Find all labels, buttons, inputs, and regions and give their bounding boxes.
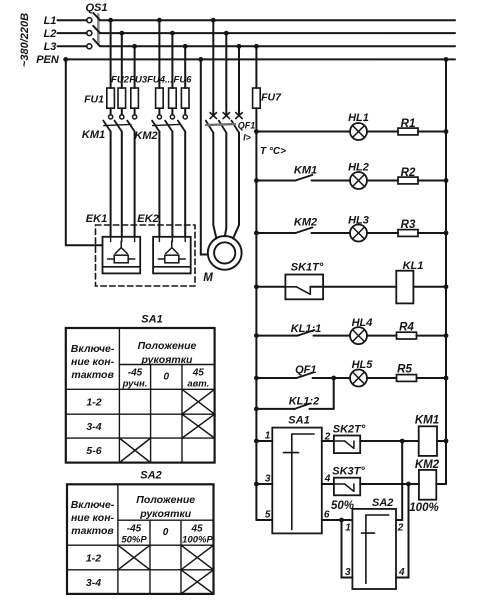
fuse FU6 (181, 88, 189, 108)
svg-text:SK1T°: SK1T° (291, 262, 324, 274)
svg-text:KM1: KM1 (415, 415, 439, 427)
svg-text:KL1:2: KL1:2 (289, 396, 320, 408)
svg-text:HL1: HL1 (348, 112, 369, 124)
fuse FU5 (169, 88, 177, 108)
wire SA2 pin4 riser (396, 484, 409, 578)
svg-text:тактов: тактов (71, 369, 114, 381)
svg-text:KM1: KM1 (294, 165, 317, 177)
contact KL1:1 (298, 330, 315, 336)
svg-text:KM2: KM2 (294, 217, 317, 229)
wire row4 bus to SK1T (256, 286, 285, 288)
wire HL2 to R2 (367, 180, 398, 182)
wire feeder to fuse FU5 (171, 33, 173, 88)
SK3T contact (334, 483, 345, 485)
wire fuse FU2 to KM1 contact (121, 108, 123, 115)
SA1 pin1 wire (256, 440, 272, 442)
wire KM2 contact down (184, 132, 186, 237)
wire QF1 aux to HL5 (313, 377, 351, 379)
SA1 pin6 wire (322, 519, 342, 521)
fuse FU2 (118, 88, 126, 108)
svg-text:45: 45 (190, 524, 203, 535)
svg-text:1-2: 1-2 (86, 553, 101, 565)
wire SK1T to KL1 (310, 286, 396, 288)
wire feeder to fuse FU4 (158, 20, 160, 88)
svg-text:2: 2 (397, 523, 404, 534)
wire HL1 to R1 (367, 131, 398, 133)
svg-text:T °C>: T °C> (260, 146, 286, 157)
wire L2 lead (58, 32, 87, 34)
svg-text:тактов: тактов (71, 525, 114, 537)
SA1 pin2 wire (322, 440, 334, 442)
svg-text:KL1: KL1 (403, 260, 424, 272)
svg-text:QF1: QF1 (295, 364, 316, 376)
svg-text:I>: I> (243, 133, 252, 143)
svg-text:SK3T°: SK3T° (332, 466, 365, 478)
wire SK3T to KM2 coil (360, 483, 419, 485)
thermal switch SK1T box (285, 275, 323, 300)
wire left control bus (255, 108, 257, 520)
svg-text:авт.: авт. (187, 379, 209, 390)
wire feeder to fuse FU3 (134, 46, 136, 88)
svg-text:KM2: KM2 (415, 459, 440, 471)
wire R5 to right bus (417, 377, 447, 379)
svg-text:100%: 100% (409, 502, 438, 514)
wire KL1 to right bus (413, 286, 446, 288)
lamp HL3 (350, 225, 367, 242)
wire KM1 contact down (134, 132, 136, 237)
motor M outer circle (208, 236, 242, 270)
svg-text:рукоятки: рукоятки (139, 508, 192, 520)
svg-text:KL1:1: KL1:1 (291, 323, 322, 335)
fuse FU3 (131, 88, 139, 108)
wire SA2 pin2 riser (396, 441, 402, 520)
wire row1 bus to HL1 (256, 131, 350, 133)
svg-text:L1: L1 (44, 15, 57, 27)
thermal switch SK2T box (334, 436, 360, 454)
svg-text:SA1: SA1 (288, 415, 309, 427)
wire SA2 pin3 riser (342, 520, 353, 578)
wire fuse FU4 to KM2 contact (158, 108, 160, 115)
wire QF1 pole3 to motor (233, 133, 239, 239)
heater enclosure dashed box (96, 225, 196, 286)
table SA1 X marks (182, 389, 215, 414)
SA1 pin5 wire (bus corner) (256, 519, 272, 521)
lamp HL5 (350, 370, 367, 387)
wire fuse FU3 to KM1 contact (134, 108, 136, 115)
junctions on PEN (63, 57, 68, 62)
svg-text:QF1: QF1 (238, 121, 256, 131)
heater EK2 entry stubs (158, 237, 160, 242)
wire R2 to right bus (418, 180, 446, 182)
svg-text:Включе-: Включе- (71, 343, 115, 355)
contactor KM1 linkage (104, 124, 131, 125)
lamp HL2 (350, 172, 367, 189)
wire feeder to fuse FU6 (184, 46, 186, 88)
svg-text:5-6: 5-6 (86, 445, 101, 457)
wire L3 bus (100, 45, 455, 47)
wire right control bus (445, 59, 447, 484)
wire HL5 to R5 (367, 377, 397, 379)
heater EK2 bottom strip (153, 266, 191, 268)
cam switch SA1 box (272, 428, 322, 534)
heater EK2 star point (171, 241, 173, 248)
svg-text:3-4: 3-4 (86, 577, 101, 589)
SA1 internal shaft (291, 434, 293, 530)
svg-text:ние кон-: ние кон- (71, 512, 115, 524)
cam switch SA2 box (352, 509, 396, 589)
contactor coil KM2 (419, 470, 436, 500)
wire L2 bus (100, 32, 455, 34)
svg-text:KM1: KM1 (82, 129, 105, 141)
svg-text:3: 3 (265, 474, 271, 485)
svg-text:M: M (203, 272, 213, 284)
svg-text:5: 5 (265, 510, 271, 521)
junctions on right control bus (444, 129, 449, 134)
heater EK1 entry stubs (110, 237, 112, 242)
contactor KM2 main contact at x=159.4 (157, 115, 161, 119)
junctions on L1 (108, 18, 113, 23)
svg-text:Положение: Положение (138, 340, 197, 352)
thermal switch SK3T box (334, 478, 360, 496)
svg-text:PEN: PEN (36, 54, 60, 66)
lamp HL1 (350, 123, 367, 140)
svg-text:R5: R5 (397, 364, 412, 376)
contactor coil KM1 (419, 426, 437, 456)
wire L1 bus (100, 19, 455, 21)
svg-text:HL2: HL2 (348, 162, 369, 174)
svg-text:50%Р: 50%Р (121, 535, 147, 546)
svg-text:FU6: FU6 (174, 75, 193, 86)
svg-text:SK2T°: SK2T° (333, 424, 366, 436)
SA1 pin4 wire (322, 483, 334, 485)
svg-text:QS1: QS1 (85, 2, 107, 14)
wire fuse FU1 to KM1 contact (110, 108, 112, 115)
table SA2 X marks (118, 545, 150, 570)
wire KM1 contact to HL2 (312, 180, 351, 182)
contactor KM1 main contact at x=121.8 (120, 115, 124, 119)
svg-text:Положение: Положение (136, 494, 195, 506)
wire bus to KL1:2 (256, 408, 294, 410)
contactor KM2 main contact at x=172.4 (170, 115, 174, 119)
svg-text:-45: -45 (127, 524, 142, 535)
contact KM2 aux (296, 227, 313, 233)
resistor R2 (398, 177, 418, 184)
svg-text:3: 3 (345, 567, 351, 578)
resistor R4 (397, 332, 417, 339)
wire row6 bus to QF1 aux (256, 377, 296, 379)
svg-text:50%: 50% (331, 500, 354, 512)
svg-text:100%Р: 100%Р (182, 535, 213, 546)
svg-text:SA2: SA2 (140, 470, 161, 482)
svg-text:~380/220В: ~380/220В (19, 13, 31, 67)
wire L3 lead (58, 45, 87, 47)
svg-text:Включе-: Включе- (71, 499, 115, 511)
junctions on L2 (119, 31, 124, 36)
svg-text:3-4: 3-4 (86, 421, 101, 433)
svg-text:R1: R1 (401, 118, 416, 130)
wire R1 to right bus (418, 131, 446, 133)
wire HL4 to R4 (367, 335, 397, 337)
wire KM2 contact down (158, 132, 160, 237)
wire fuse FU6 to KM2 contact (184, 108, 186, 115)
heater EK2 box (153, 237, 191, 274)
heater EK1 element resistor (114, 255, 128, 263)
svg-text:L2: L2 (44, 28, 57, 40)
table SA1 frame (66, 328, 215, 463)
wire KL1:2 to branch (310, 408, 334, 410)
svg-text:1: 1 (265, 431, 271, 442)
svg-text:1: 1 (345, 523, 351, 534)
wire KM1 contact down (121, 132, 123, 237)
junctions on L3 (132, 44, 137, 49)
wire PEN bus (64, 58, 455, 60)
svg-text:KM2: KM2 (134, 130, 157, 142)
svg-text:0: 0 (164, 372, 170, 383)
svg-text:HL5: HL5 (352, 359, 374, 371)
svg-text:HL3: HL3 (348, 215, 369, 227)
wire HL3 to R3 (367, 232, 398, 234)
relay coil KL1 (396, 271, 413, 304)
heater EK1 bottom strip (103, 266, 141, 268)
contactor KM2 main contact at x=185.2 (183, 115, 187, 119)
wire KM1 contact down (110, 132, 112, 237)
svg-text:6: 6 (324, 510, 330, 521)
svg-text:4: 4 (398, 567, 405, 578)
contactor KM2 linkage (153, 124, 180, 125)
contact QF1 aux (297, 372, 314, 378)
wire SA2 pin1 (342, 519, 353, 521)
svg-text:45: 45 (192, 368, 205, 379)
wire R4 to right bus (417, 335, 447, 337)
svg-text:R4: R4 (399, 322, 414, 334)
contactor KM1 main contact at x=134.6 (133, 115, 137, 119)
wire branch up to row6 (333, 378, 335, 409)
wire feeder to fuse FU1 (110, 20, 112, 88)
heater EK1 box (103, 237, 141, 274)
wire KM1 coil to right bus (437, 440, 446, 442)
contact KL1:2 (295, 403, 311, 409)
svg-text:L3: L3 (44, 41, 57, 53)
wire feeder to fuse FU2 (121, 33, 123, 88)
wire PEN to motor frame (201, 59, 208, 254)
svg-text:EK1: EK1 (86, 213, 107, 225)
junction SA1 pin6 / SA2 (339, 518, 344, 523)
junction row6 / KL1:2 branch (331, 376, 336, 381)
wire row2 bus to KM1 contact (256, 180, 295, 182)
junctions on left control bus (254, 129, 259, 134)
svg-text:SA2: SA2 (372, 497, 393, 509)
SK2T contact (334, 440, 345, 442)
svg-text:ние кон-: ние кон- (71, 356, 115, 368)
wire KM2 coil to right bus (436, 483, 446, 485)
wire PEN drop to heater box (66, 59, 103, 245)
wire SK2T to KM1 coil (360, 440, 419, 442)
SA2 internal shaft (365, 515, 367, 583)
wire row3 bus to KM2 contact (256, 232, 295, 234)
wire KL1:1 to HL4 (314, 335, 351, 337)
contactor KM1 main contact at x=110.6 (109, 115, 113, 119)
svg-text:ручн.: ручн. (122, 379, 148, 390)
svg-text:0: 0 (163, 527, 169, 538)
table SA2 frame (67, 484, 214, 594)
svg-text:4: 4 (324, 474, 331, 485)
circuit breaker QF1 (206, 20, 242, 133)
junction SK2T/SA2 pin2 (400, 439, 405, 444)
resistor R3 (398, 230, 418, 237)
junction SK3T/SA2 pin4 (406, 482, 411, 487)
svg-text:FU1: FU1 (84, 94, 104, 106)
heater EK1 star point (120, 241, 122, 248)
wire L1 lead (58, 19, 87, 21)
wire QF1 pole2 to motor (225, 133, 226, 236)
SK1T contact (285, 286, 296, 288)
resistor R5 (397, 375, 417, 382)
heater EK2 element resistor (165, 255, 179, 263)
motor M inner circle (214, 242, 235, 263)
svg-text:FU7: FU7 (261, 92, 282, 104)
resistor R1 (398, 128, 418, 135)
wire row5 bus to KL1:1 (256, 335, 297, 337)
SA1 pin3 wire (256, 483, 272, 485)
svg-text:-45: -45 (128, 368, 143, 379)
svg-text:EK2: EK2 (137, 213, 158, 225)
svg-text:2: 2 (324, 432, 331, 443)
wire KM2 contact down (171, 132, 173, 237)
svg-text:1-2: 1-2 (86, 397, 101, 409)
wire fuse FU5 to KM2 contact (171, 108, 173, 115)
wire QF1 pole1 to motor (213, 133, 216, 239)
fuse FU7 (253, 88, 261, 108)
svg-text:FU3: FU3 (129, 75, 148, 86)
wire R3 to right bus (418, 232, 446, 234)
svg-text:рукоятки: рукоятки (141, 354, 194, 366)
fuse FU4 (156, 88, 164, 108)
svg-text:SA1: SA1 (141, 314, 162, 326)
svg-text:HL4: HL4 (352, 317, 373, 329)
fuse FU1 (107, 88, 115, 108)
svg-text:FU2: FU2 (111, 75, 130, 86)
svg-text:R2: R2 (401, 167, 416, 179)
wire L3 to FU7 (255, 46, 257, 88)
disconnect switch QS1 (85, 2, 107, 49)
wire KM2 contact to HL3 (312, 232, 351, 234)
svg-text:R3: R3 (401, 219, 416, 231)
lamp HL4 (350, 327, 367, 344)
contact KM1 aux (296, 175, 313, 181)
